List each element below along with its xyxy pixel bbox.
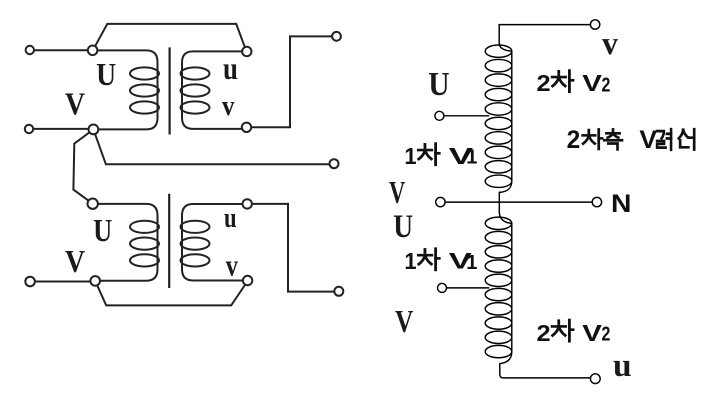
svg-text:2: 2: [537, 321, 551, 347]
svg-text:1: 1: [466, 147, 477, 169]
svg-text:2: 2: [602, 74, 611, 96]
svg-text:u: u: [224, 201, 237, 233]
svg-text:2: 2: [602, 323, 611, 345]
svg-text:2: 2: [537, 71, 551, 97]
svg-text:1: 1: [466, 252, 477, 274]
svg-text:V: V: [639, 127, 657, 154]
svg-text:V: V: [65, 244, 86, 279]
svg-text:u: u: [223, 52, 238, 86]
svg-text:V: V: [582, 320, 602, 346]
svg-text:1: 1: [404, 247, 416, 274]
svg-text:N: N: [611, 189, 631, 217]
svg-text:V: V: [65, 87, 86, 122]
svg-text:U: U: [96, 57, 116, 92]
svg-text:v: v: [226, 249, 238, 282]
svg-text:V: V: [389, 174, 405, 210]
svg-text:U: U: [93, 214, 112, 249]
svg-text:U: U: [428, 65, 449, 102]
svg-text:u: u: [613, 347, 632, 384]
svg-text:U: U: [393, 207, 413, 244]
svg-text:2: 2: [567, 127, 581, 154]
svg-text:V: V: [582, 70, 602, 96]
svg-text:V: V: [395, 304, 414, 339]
svg-text:1: 1: [404, 142, 416, 169]
svg-text:v: v: [222, 89, 235, 121]
svg-text:v: v: [602, 25, 619, 62]
